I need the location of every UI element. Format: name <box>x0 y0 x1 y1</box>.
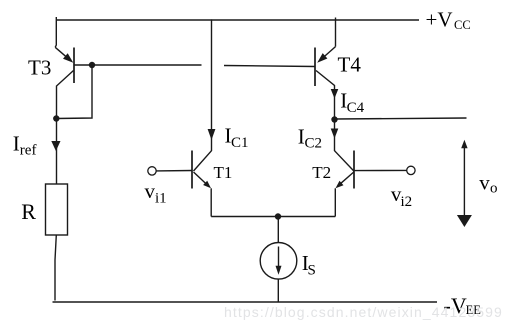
wire: bottom -VEE rail <box>53 301 438 303</box>
svg-text:R: R <box>21 199 36 224</box>
svg-text:CC: CC <box>454 18 471 32</box>
wire: output line to vo <box>335 118 467 119</box>
output indicator vo (double arrow) <box>457 140 472 227</box>
transistor T2 (NPN) <box>335 151 355 217</box>
svg-text:C2: C2 <box>305 136 323 152</box>
transistor T4 (PNP) <box>315 18 336 152</box>
arrow Iref <box>51 141 60 151</box>
terminal vi2 <box>407 166 415 174</box>
wire: tail junction to current source <box>277 217 279 243</box>
arrow IC2 <box>331 129 339 139</box>
svg-text:i2: i2 <box>401 194 413 210</box>
power +VCC label <box>426 8 471 33</box>
wire: current source to -VEE rail <box>277 279 279 302</box>
svg-text:v: v <box>145 179 156 203</box>
wire: +VCC top rail <box>56 19 419 21</box>
svg-text:I: I <box>13 131 20 155</box>
node: T3 base junction <box>89 62 95 68</box>
node: T3 collector junction <box>53 115 59 121</box>
wire: common emitter line <box>211 216 335 218</box>
current source IS <box>260 242 297 279</box>
svg-text:T2: T2 <box>312 163 331 182</box>
svg-text:ref: ref <box>20 143 37 159</box>
terminal vi1 <box>148 167 156 175</box>
wire: vi1 to T1 base <box>156 170 192 172</box>
node: output junction <box>331 116 337 122</box>
label IS <box>302 251 316 279</box>
label IC1 <box>225 124 249 151</box>
arrow IC4 <box>331 89 339 99</box>
label vi2 <box>391 182 412 210</box>
wire: T3 base to T4 base (right segment) <box>224 66 315 67</box>
svg-text:T1: T1 <box>214 163 233 182</box>
wire: R to -VEE rail <box>55 235 56 301</box>
svg-text:+V: +V <box>426 8 453 32</box>
label IC2 <box>298 124 322 151</box>
label vi1 <box>145 179 167 207</box>
svg-text:https://blog.csdn.net/weixin_4: https://blog.csdn.net/weixin_44123599 <box>224 304 503 320</box>
svg-text:C1: C1 <box>231 135 249 151</box>
svg-text:T4: T4 <box>338 53 362 77</box>
label vo <box>479 170 497 196</box>
power -VEE label <box>444 293 482 318</box>
svg-text:o: o <box>490 181 498 197</box>
svg-text:C4: C4 <box>347 100 365 116</box>
resistor R <box>46 184 68 235</box>
label Iref <box>13 131 37 158</box>
svg-text:i1: i1 <box>155 191 167 207</box>
label IC4 <box>340 89 364 116</box>
wire: T3 base to T4 base (left segment) <box>74 64 202 66</box>
node: tail junction <box>275 213 281 219</box>
svg-text:v: v <box>479 170 490 194</box>
transistor T1 (NPN) <box>192 151 212 217</box>
transistor T3 (PNP) <box>55 17 74 184</box>
svg-text:S: S <box>308 263 316 279</box>
arrow IC1 <box>208 129 216 140</box>
wire: IC1 branch from rail to T1 collector <box>211 19 213 151</box>
svg-text:T3: T3 <box>28 56 51 80</box>
wire: diode-connection loop from base to collector <box>57 65 93 119</box>
wire: T2 base to vi2 <box>354 169 407 171</box>
